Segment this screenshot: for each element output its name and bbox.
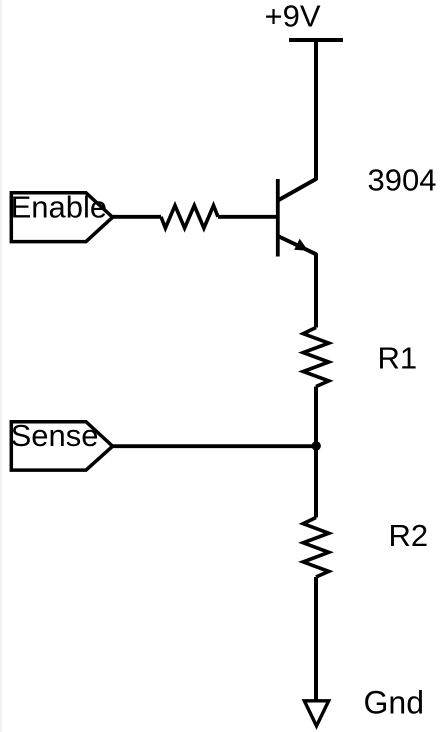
emitter diagonal <box>278 236 316 328</box>
power rail bar <box>289 38 343 42</box>
wire R2 to ground <box>314 577 318 700</box>
wire R1 to junction <box>314 387 318 447</box>
wire collector from rail <box>278 40 316 201</box>
ground symbol <box>304 701 328 726</box>
emitter arrow <box>294 239 308 251</box>
resistor R2 <box>303 518 329 578</box>
resistor R1 <box>303 328 329 387</box>
svg-text:Sense: Sense <box>11 418 99 453</box>
wire enable to resistor <box>113 215 161 219</box>
transistor Q1 2N3904 <box>278 179 316 328</box>
base bar <box>276 179 280 257</box>
Sense flag <box>11 422 112 470</box>
junction node dot <box>312 441 321 450</box>
svg-text:Gnd: Gnd <box>364 684 424 720</box>
svg-text:3904: 3904 <box>368 163 437 198</box>
base resistor zigzag <box>161 206 218 229</box>
Enable flag <box>11 193 112 242</box>
wire sense to junction <box>113 444 316 448</box>
svg-text:Enable: Enable <box>11 190 108 225</box>
svg-text:R2: R2 <box>389 518 429 553</box>
svg-text:+9V: +9V <box>265 0 321 34</box>
wire junction to R2 <box>314 446 318 518</box>
wire resistor to base <box>218 215 278 219</box>
svg-text:R1: R1 <box>378 341 418 376</box>
scan artifact left edge line <box>0 0 2 732</box>
